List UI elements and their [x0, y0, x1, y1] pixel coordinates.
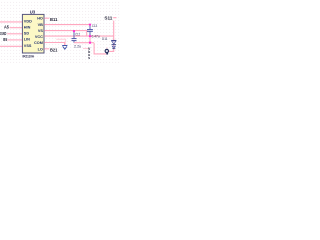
chip labels [23, 10, 44, 59]
junction lower/C12 [89, 42, 91, 44]
wire VCC jog [56, 39, 65, 45]
background [0, 0, 120, 63]
svg-text:S11: S11 [104, 16, 112, 21]
svg-text:VS: VS [38, 29, 44, 33]
svg-text:VB: VB [38, 23, 44, 27]
junction VB/C13 [89, 23, 91, 25]
svg-text:D11: D11 [102, 37, 107, 41]
svg-text:SD: SD [24, 32, 30, 36]
wire COM-net lower [74, 42, 94, 44]
svg-text:VCC: VCC [35, 35, 43, 39]
svg-text:VSS: VSS [24, 44, 32, 48]
wire VSS left [0, 45, 22, 47]
svg-text:LO: LO [38, 47, 43, 51]
wire VCC-to-lower vertical [89, 36, 91, 43]
svg-text:HIN: HIN [24, 25, 31, 29]
svg-text:U3: U3 [30, 10, 36, 15]
svg-text:s: s [88, 56, 90, 60]
wire VB [44, 24, 90, 26]
capacitor C12 [73, 31, 75, 38]
svg-text:COM: COM [34, 41, 43, 45]
ground [62, 45, 67, 47]
wire VDD left [0, 21, 22, 23]
wire vertical to bottom [94, 43, 106, 54]
svg-text:B5: B5 [3, 37, 7, 42]
junction VCC/C12 [73, 30, 75, 32]
wire S11 riser [108, 21, 113, 52]
wire LIN [7, 39, 22, 41]
wire HO stub [44, 17, 49, 19]
svg-text:0.47u: 0.47u [92, 34, 100, 38]
svg-text:IR2110A: IR2110A [23, 54, 35, 58]
op-amp U3 body [22, 14, 44, 53]
svg-text:LIN: LIN [24, 38, 30, 42]
svg-text:2.2u: 2.2u [74, 45, 81, 49]
diode D11b [112, 46, 115, 48]
svg-text:B21: B21 [50, 48, 58, 53]
wire COM to ground [44, 43, 64, 46]
wire VS [44, 31, 86, 36]
wire LO stub [44, 48, 49, 50]
svg-text:DGND: DGND [0, 31, 6, 36]
transistor circle [106, 47, 108, 49]
wire label stub [83, 47, 89, 49]
svg-text:VDD: VDD [24, 20, 32, 24]
wire SD [7, 33, 22, 35]
svg-text:C13: C13 [92, 24, 97, 28]
svg-text:C12: C12 [75, 32, 80, 36]
svg-text:B11: B11 [50, 17, 58, 22]
capacitor C13 [89, 25, 91, 29]
junction VCC/C13 [89, 35, 91, 37]
svg-text:HO: HO [37, 17, 43, 21]
wire HIN [10, 27, 23, 29]
wire VCC [44, 35, 113, 37]
svg-text:A5: A5 [4, 25, 9, 30]
transistor pad [106, 53, 108, 55]
